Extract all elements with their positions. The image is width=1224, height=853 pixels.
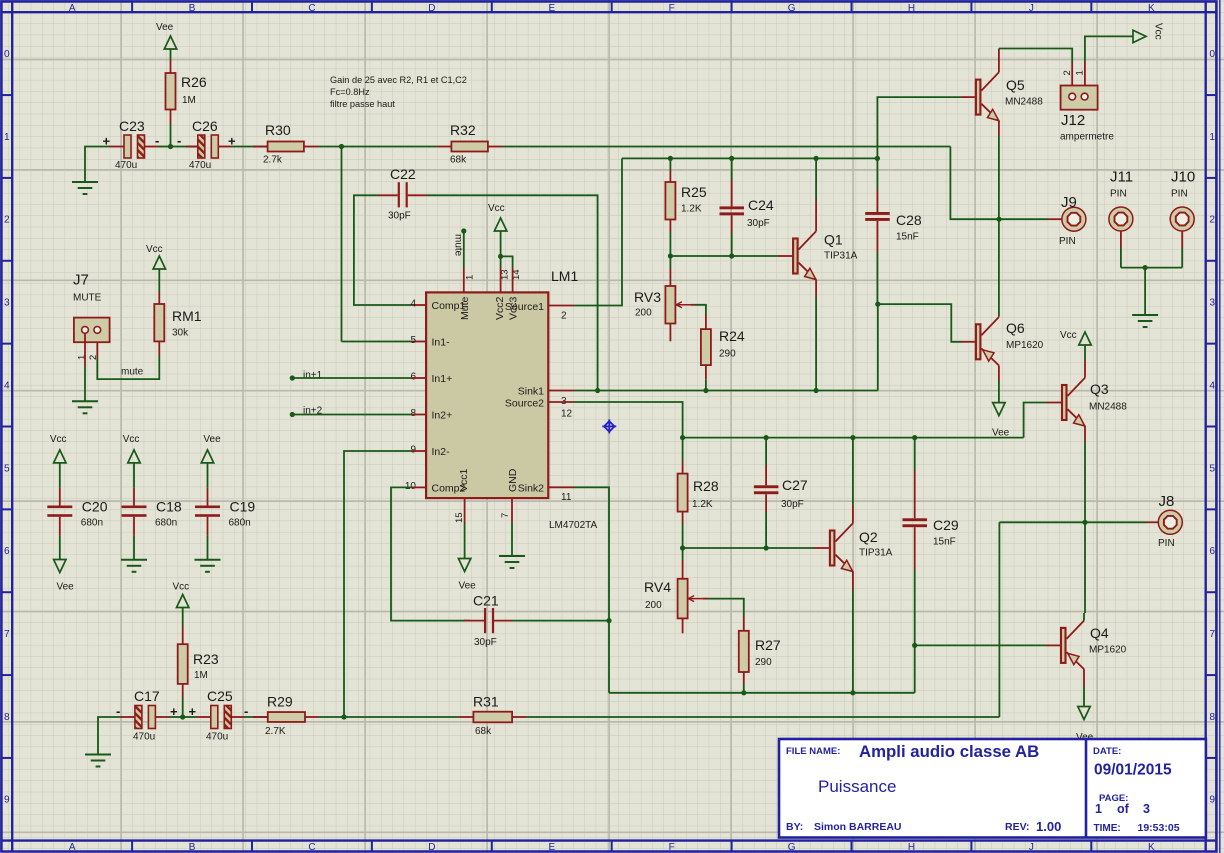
wire Q3 collector xyxy=(1084,360,1086,378)
svg-text:-: - xyxy=(244,704,248,719)
node C28 bottom xyxy=(875,302,880,307)
svg-text:1: 1 xyxy=(1209,132,1215,143)
svg-text:G: G xyxy=(788,3,796,14)
svg-text:C: C xyxy=(308,842,315,853)
svg-text:6: 6 xyxy=(1209,546,1215,557)
node Q2 collector rail xyxy=(850,435,855,440)
svg-text:C19: C19 xyxy=(230,499,256,515)
transistor Q4 MP1620 xyxy=(1061,628,1066,663)
node rail C24 xyxy=(729,156,734,161)
capacitor C29 15nF xyxy=(914,438,916,470)
node rail R25 xyxy=(668,156,673,161)
svg-text:8: 8 xyxy=(4,712,10,723)
svg-text:J: J xyxy=(1029,842,1034,853)
wire Q1 collector xyxy=(815,200,817,231)
svg-text:11: 11 xyxy=(561,492,572,503)
svg-text:R27: R27 xyxy=(755,637,781,653)
node Source2/R28 xyxy=(680,435,685,440)
svg-text:R32: R32 xyxy=(450,122,476,138)
ground (C23 input) xyxy=(72,181,98,183)
resistor R32 68k xyxy=(451,142,488,152)
capacitor C21 30pF xyxy=(484,608,486,633)
svg-text:R29: R29 xyxy=(267,694,293,710)
svg-text:Simon BARREAU: Simon BARREAU xyxy=(814,821,902,833)
wire Source1 pin2 xyxy=(548,305,574,307)
node Q2 emitter xyxy=(850,690,855,695)
svg-text:-: - xyxy=(116,704,120,719)
svg-text:470u: 470u xyxy=(206,732,228,743)
ground (C17 input) xyxy=(85,754,111,756)
resistor R31 68k xyxy=(473,712,512,723)
node R29/R31/pin9 xyxy=(341,714,346,719)
svg-text:Q5: Q5 xyxy=(1006,77,1025,93)
svg-text:Q6: Q6 xyxy=(1006,320,1025,336)
svg-text:+: + xyxy=(228,134,236,149)
svg-text:2.7k: 2.7k xyxy=(263,155,283,166)
svg-text:RM1: RM1 xyxy=(172,308,202,324)
svg-text:R24: R24 xyxy=(719,328,745,344)
node J10/J11 xyxy=(1143,265,1148,270)
svg-text:mute: mute xyxy=(453,234,464,257)
wire Source2 pin12 xyxy=(548,401,574,403)
svg-text:Vcc3: Vcc3 xyxy=(508,296,520,320)
node R25/RV3 xyxy=(668,253,673,258)
wire node to J9 xyxy=(999,218,1048,220)
wire Q5 base xyxy=(877,97,961,158)
capacitor C18 680n xyxy=(133,463,135,488)
wire feedback vertical xyxy=(341,147,343,342)
wire C28 to Sink1 corner xyxy=(877,304,879,390)
svg-text:MP1620: MP1620 xyxy=(1006,340,1044,351)
svg-text:1M: 1M xyxy=(194,670,208,681)
svg-text:2: 2 xyxy=(561,311,567,322)
resistor R26 1M xyxy=(166,73,176,110)
svg-text:Sink1: Sink1 xyxy=(518,386,544,398)
svg-text:C25: C25 xyxy=(207,688,233,704)
svg-text:Puissance: Puissance xyxy=(818,777,896,796)
wire Q3 emitter to Q4 xyxy=(1084,522,1086,613)
wire node to R31 xyxy=(344,716,459,718)
wire R26 to node xyxy=(170,110,172,125)
resistor R25 1.2K xyxy=(669,158,671,170)
wire Q3 base from rail xyxy=(1024,403,1046,438)
svg-text:9: 9 xyxy=(1209,795,1215,806)
svg-text:470u: 470u xyxy=(189,160,211,171)
capacitor C25 470u xyxy=(183,716,196,718)
svg-text:Ampli audio classe AB: Ampli audio classe AB xyxy=(859,742,1039,761)
svg-text:6: 6 xyxy=(4,546,10,557)
node rail C27 xyxy=(764,435,769,440)
svg-text:J8: J8 xyxy=(1159,493,1175,510)
svg-text:3: 3 xyxy=(4,298,10,309)
svg-text:In1-: In1- xyxy=(432,337,451,349)
svg-text:MUTE: MUTE xyxy=(73,293,102,304)
capacitor C22 30pF xyxy=(398,182,400,207)
IC LM1 LM4702TA xyxy=(426,292,548,498)
wire bias rail 2 xyxy=(683,547,814,549)
power Vee (C20) xyxy=(54,560,66,573)
svg-text:200: 200 xyxy=(635,308,652,319)
wire Vcc to pins 13/14 xyxy=(500,231,502,256)
svg-text:+: + xyxy=(103,134,111,149)
svg-text:K: K xyxy=(1148,3,1155,14)
wire Q5 collector to J12 xyxy=(998,49,1000,73)
node output2/J8 xyxy=(1082,520,1087,525)
wire Q6 bottom to Vee xyxy=(998,366,1000,382)
node rail C29 xyxy=(912,435,917,440)
node R30/R32/feedback xyxy=(339,144,344,149)
svg-text:1.00: 1.00 xyxy=(1036,819,1061,834)
svg-text:5: 5 xyxy=(1209,463,1215,474)
node C24 bottom xyxy=(729,253,734,258)
node C27 bottom xyxy=(764,545,769,550)
node in+1 xyxy=(290,375,295,380)
svg-text:200: 200 xyxy=(645,600,662,611)
svg-text:1: 1 xyxy=(1095,802,1102,816)
svg-text:B: B xyxy=(189,3,196,14)
transistor Q2 TIP31A xyxy=(830,531,835,566)
potentiometer RV4 200 xyxy=(682,548,684,560)
wire Comp2 pin10 to C21 xyxy=(412,486,426,488)
wire Sink2 rail xyxy=(609,692,915,694)
capacitor C27 30pF xyxy=(765,438,767,465)
node Q1 emitter/Sink1 xyxy=(814,388,819,393)
ground (C18) xyxy=(121,559,147,561)
wire Q3 emitter xyxy=(1084,426,1086,442)
svg-text:In2-: In2- xyxy=(432,446,451,458)
wire Q2 collector xyxy=(852,505,854,523)
wire J10 down xyxy=(1181,231,1183,248)
connector J11 PIN xyxy=(1109,207,1133,231)
svg-text:Vcc: Vcc xyxy=(173,581,190,592)
transistor Q1 TIP31A xyxy=(793,239,798,274)
wire mute net to pin1 xyxy=(463,268,465,292)
svg-text:Fc=0.8Hz: Fc=0.8Hz xyxy=(330,87,370,97)
wire In1- pin5 xyxy=(342,341,413,343)
svg-text:Q4: Q4 xyxy=(1090,625,1109,641)
wire Q4 base xyxy=(915,644,1046,646)
wire Q5 emitter xyxy=(998,121,1000,136)
svg-text:Q1: Q1 xyxy=(824,232,843,248)
svg-text:3: 3 xyxy=(1143,802,1150,816)
wire C17 to node xyxy=(155,716,169,718)
svg-text:470u: 470u xyxy=(133,732,155,743)
wire to ground xyxy=(1144,268,1146,314)
wire Q1 emitter xyxy=(815,280,817,297)
wire C26 to R30 xyxy=(218,146,232,148)
wire Sink2 pin11 xyxy=(548,486,574,488)
node R24/Sink1 xyxy=(703,388,708,393)
svg-text:680n: 680n xyxy=(155,518,177,529)
svg-text:2: 2 xyxy=(1062,70,1073,75)
svg-text:1: 1 xyxy=(4,132,10,143)
svg-text:4: 4 xyxy=(4,380,10,391)
svg-text:1.2K: 1.2K xyxy=(681,204,702,215)
svg-text:filtre passe haut: filtre passe haut xyxy=(330,99,395,109)
svg-text:D: D xyxy=(428,842,435,853)
connector J8 PIN xyxy=(1158,510,1182,534)
svg-text:30pF: 30pF xyxy=(388,211,411,222)
svg-text:G: G xyxy=(788,842,796,853)
wire C21 to Sink2 xyxy=(494,620,512,622)
wire J12 pin1 to Vcc xyxy=(1084,62,1086,86)
svg-text:E: E xyxy=(548,842,555,853)
svg-text:D: D xyxy=(428,3,435,14)
svg-text:30pF: 30pF xyxy=(781,499,804,510)
wire node to R32 xyxy=(342,146,438,148)
svg-text:C23: C23 xyxy=(119,118,145,134)
svg-text:Q3: Q3 xyxy=(1090,381,1109,397)
svg-text:C20: C20 xyxy=(82,499,108,515)
svg-text:9: 9 xyxy=(410,445,416,456)
wire R30 to node B xyxy=(304,146,318,148)
wire R29 to node xyxy=(305,716,318,718)
svg-text:J9: J9 xyxy=(1061,194,1077,211)
ground (J10/J11) xyxy=(1132,314,1158,316)
wire R31 to output2 xyxy=(512,716,526,718)
svg-text:Vcc: Vcc xyxy=(123,434,140,445)
svg-text:TIP31A: TIP31A xyxy=(824,250,858,261)
svg-text:R28: R28 xyxy=(693,478,719,494)
svg-text:Vcc: Vcc xyxy=(1060,330,1077,341)
svg-text:of: of xyxy=(1117,802,1130,816)
svg-text:6: 6 xyxy=(410,372,416,383)
svg-text:mute: mute xyxy=(121,367,144,378)
svg-text:PIN: PIN xyxy=(1158,538,1175,549)
svg-text:FILE NAME:: FILE NAME: xyxy=(786,746,840,757)
wire Sink2 corner up xyxy=(914,645,916,692)
svg-text:Vcc: Vcc xyxy=(1153,23,1164,40)
svg-text:R31: R31 xyxy=(473,694,499,710)
svg-text:C26: C26 xyxy=(192,118,218,134)
svg-text:5: 5 xyxy=(4,463,10,474)
svg-text:Sink2: Sink2 xyxy=(518,483,544,495)
wire Q4 emitter to Vee xyxy=(1083,669,1085,686)
wire feedback2 up xyxy=(998,522,1000,717)
svg-text:470u: 470u xyxy=(115,160,137,171)
wire RV4 wiper to R27 xyxy=(703,598,707,600)
capacitor C23 xyxy=(124,135,131,158)
svg-text:+: + xyxy=(170,704,178,719)
svg-text:30k: 30k xyxy=(172,328,189,339)
svg-text:10: 10 xyxy=(405,481,417,492)
svg-text:1: 1 xyxy=(1075,70,1086,75)
svg-text:E: E xyxy=(548,3,555,14)
svg-text:1.2K: 1.2K xyxy=(692,499,713,510)
wire J11 down xyxy=(1120,231,1122,248)
node C23/C26/R26 xyxy=(168,144,173,149)
wire ground to C17 xyxy=(98,717,120,755)
svg-text:19:53:05: 19:53:05 xyxy=(1138,822,1180,834)
svg-text:C17: C17 xyxy=(134,688,160,704)
wire C23 to node xyxy=(145,146,158,148)
wire bias rail 1 xyxy=(670,255,778,257)
svg-text:C18: C18 xyxy=(156,499,182,515)
node in+2 xyxy=(290,412,295,417)
power Vcc (top right) xyxy=(1133,30,1146,42)
svg-text:7: 7 xyxy=(1209,629,1215,640)
svg-text:DATE:: DATE: xyxy=(1093,746,1121,757)
wire R32 to output node xyxy=(488,146,502,148)
node C21/Sink2 xyxy=(606,618,611,623)
svg-text:680n: 680n xyxy=(81,518,103,529)
connector J10 PIN xyxy=(1170,207,1194,231)
wire Source1 top rail xyxy=(622,157,877,159)
node rail C28 xyxy=(875,156,880,161)
wire Source2 rail xyxy=(683,437,1024,439)
svg-text:BY:: BY: xyxy=(786,821,803,833)
svg-text:In2+: In2+ xyxy=(432,410,453,422)
origin marker xyxy=(602,419,616,433)
node R28/RV4 xyxy=(680,545,685,550)
svg-text:3: 3 xyxy=(1209,298,1215,309)
svg-text:TIME:: TIME: xyxy=(1094,823,1121,834)
svg-text:PIN: PIN xyxy=(1059,236,1076,247)
svg-text:R23: R23 xyxy=(193,651,219,667)
svg-text:J: J xyxy=(1029,3,1034,14)
svg-text:MN2488: MN2488 xyxy=(1005,97,1043,108)
svg-text:RV3: RV3 xyxy=(634,289,661,305)
resistor R23 1M xyxy=(182,608,184,627)
wire RV3 wiper to R24 xyxy=(690,304,695,306)
svg-text:in+1: in+1 xyxy=(303,370,323,381)
svg-text:R30: R30 xyxy=(265,122,291,138)
wire J8 line xyxy=(999,521,1085,523)
resistor R29 2.7K xyxy=(268,712,305,722)
svg-text:12: 12 xyxy=(561,408,573,419)
svg-text:In1+: In1+ xyxy=(432,373,453,385)
svg-text:TIP31A: TIP31A xyxy=(859,548,893,559)
svg-text:C21: C21 xyxy=(473,593,499,609)
ground (J7) xyxy=(72,400,98,402)
svg-text:C: C xyxy=(308,3,315,14)
svg-text:R26: R26 xyxy=(181,74,207,90)
wire C22 to Sink1 xyxy=(408,194,427,196)
svg-text:Vee: Vee xyxy=(459,581,477,592)
svg-text:15nF: 15nF xyxy=(896,232,919,243)
wire J7 pin2 mute xyxy=(96,342,98,358)
wire Vee to R26 xyxy=(170,49,172,60)
svg-text:0: 0 xyxy=(4,49,10,60)
svg-text:B: B xyxy=(189,842,196,853)
wire Comp1 pin4 to C22 xyxy=(412,304,426,306)
svg-text:ampermetre: ampermetre xyxy=(1060,132,1114,143)
svg-text:290: 290 xyxy=(755,657,772,668)
capacitor C28 15nF xyxy=(876,158,878,190)
wire Q2 emitter xyxy=(852,572,854,590)
svg-text:A: A xyxy=(69,3,76,14)
svg-text:A: A xyxy=(69,842,76,853)
potentiometer RV3 200 xyxy=(669,256,671,268)
node C29/Q4 base xyxy=(912,643,917,648)
power Vee (IC bottom) xyxy=(458,559,470,572)
svg-text:C28: C28 xyxy=(896,212,922,228)
svg-text:2: 2 xyxy=(1209,215,1215,226)
wire Q6 top lead xyxy=(998,316,1000,317)
svg-text:GND: GND xyxy=(507,468,519,492)
node R27/Sink2 xyxy=(741,690,746,695)
svg-text:1M: 1M xyxy=(182,95,196,106)
svg-text:Q2: Q2 xyxy=(859,529,878,545)
svg-text:68k: 68k xyxy=(450,155,467,166)
svg-text:4: 4 xyxy=(410,299,416,310)
svg-text:RV4: RV4 xyxy=(644,579,671,595)
svg-text:Gain de 25 avec R2, R1 et C1,C: Gain de 25 avec R2, R1 et C1,C2 xyxy=(330,75,467,85)
svg-text:Vcc: Vcc xyxy=(50,434,67,445)
svg-text:5: 5 xyxy=(410,335,416,346)
capacitor C20 680n xyxy=(59,463,61,488)
svg-text:H: H xyxy=(908,842,915,853)
svg-text:2: 2 xyxy=(4,215,10,226)
svg-text:Vcc: Vcc xyxy=(146,244,163,255)
wire Q5 emitter to Q6 xyxy=(998,219,1000,316)
svg-text:F: F xyxy=(669,842,675,853)
svg-text:30pF: 30pF xyxy=(474,637,497,648)
svg-text:Source2: Source2 xyxy=(505,398,544,410)
svg-text:2.7K: 2.7K xyxy=(265,726,286,737)
connector J12 ampermetre xyxy=(1061,86,1098,110)
svg-text:15nF: 15nF xyxy=(933,537,956,548)
transistor Q5 MN2488 xyxy=(976,80,981,115)
svg-text:Mute: Mute xyxy=(459,296,471,320)
svg-text:J11: J11 xyxy=(1110,169,1133,186)
node C22/Sink1 xyxy=(595,388,600,393)
wire J10/J11 join xyxy=(1121,267,1182,269)
title block xyxy=(779,739,1206,838)
svg-text:PIN: PIN xyxy=(1110,189,1127,200)
node Q1 collector rail xyxy=(814,156,819,161)
svg-text:680n: 680n xyxy=(229,518,251,529)
resistor RM1 30k xyxy=(158,269,160,292)
wire In2- pin9 feedback xyxy=(412,450,426,452)
wire input to C23 xyxy=(85,147,109,183)
connector J9 PIN xyxy=(1062,207,1086,231)
svg-text:J7: J7 xyxy=(73,272,89,289)
svg-text:7: 7 xyxy=(500,513,511,518)
svg-text:MP1620: MP1620 xyxy=(1089,645,1127,656)
svg-text:290: 290 xyxy=(719,349,736,360)
svg-text:68k: 68k xyxy=(475,726,492,737)
svg-text:J10: J10 xyxy=(1171,169,1195,186)
capacitor C17 470u xyxy=(135,706,142,729)
svg-text:4: 4 xyxy=(1209,380,1215,391)
resistor R28 1.2K xyxy=(682,438,684,461)
svg-text:Vcc1: Vcc1 xyxy=(458,468,470,492)
svg-text:09/01/2015: 09/01/2015 xyxy=(1094,762,1172,779)
power Vee (Q4) xyxy=(1078,707,1090,720)
ground (C19) xyxy=(195,559,221,561)
ground (IC pin7) xyxy=(499,555,525,557)
transistor Q6 MP1620 xyxy=(976,324,981,359)
svg-text:8: 8 xyxy=(410,408,416,419)
resistor R24 290 xyxy=(701,329,711,365)
wire C25 to R29 xyxy=(231,716,245,718)
wire node to C26 xyxy=(171,146,198,148)
svg-text:1: 1 xyxy=(465,275,476,280)
svg-text:J12: J12 xyxy=(1061,112,1085,129)
node C17/R23/C25 xyxy=(180,714,185,719)
svg-text:Vee: Vee xyxy=(57,581,75,592)
svg-text:K: K xyxy=(1148,842,1155,853)
svg-text:MN2488: MN2488 xyxy=(1089,402,1127,413)
resistor R30 2.7k xyxy=(268,142,304,152)
transistor Q3 MN2488 xyxy=(1062,385,1067,420)
svg-text:Vcc2: Vcc2 xyxy=(494,296,506,320)
svg-text:C29: C29 xyxy=(933,517,959,533)
svg-text:-: - xyxy=(155,133,159,148)
wire Vee pin15 xyxy=(464,498,466,523)
svg-text:Vee: Vee xyxy=(203,434,221,445)
